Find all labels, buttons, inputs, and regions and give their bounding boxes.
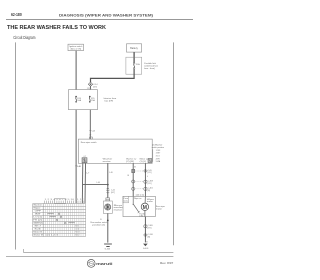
left column border bbox=[15, 42, 17, 249]
svg-text:Ignition switch: Ignition switch bbox=[69, 45, 83, 48]
wire pin6 to matrix bbox=[81, 163, 84, 203]
park switch contact bbox=[133, 196, 140, 213]
svg-text:1:OFF: 1:OFF bbox=[156, 150, 161, 152]
svg-text:17: 17 bbox=[89, 135, 91, 137]
connector circle right run upper bbox=[144, 180, 153, 185]
wire right fuse to combination switch box bbox=[89, 110, 91, 139]
svg-text:maruti: maruti bbox=[96, 261, 112, 266]
connector circle right run lower bbox=[144, 187, 153, 192]
connector circle on left run lower bbox=[132, 187, 135, 190]
svg-text:[GY]: [GY] bbox=[148, 183, 152, 185]
connector circle on left run upper bbox=[132, 180, 135, 183]
svg-text:Circuit Diagram: Circuit Diagram bbox=[13, 35, 36, 40]
svg-text:motor: motor bbox=[103, 160, 112, 163]
motor M bbox=[141, 196, 148, 216]
svg-text:[GY]: [GY] bbox=[111, 192, 115, 194]
svg-text:box - fuse): box - fuse) bbox=[144, 68, 155, 70]
svg-text:Earth: Earth bbox=[35, 228, 41, 231]
svg-text:DIAGNOSIS (WIPER AND WASHER SY: DIAGNOSIS (WIPER AND WASHER SYSTEM) bbox=[59, 13, 154, 17]
svg-text:Rear wiper switch: Rear wiper switch bbox=[81, 141, 98, 144]
svg-text:[GY]: [GY] bbox=[148, 172, 152, 174]
connector circle on ground drop bbox=[144, 225, 153, 230]
svg-text:Wiper sw: Wiper sw bbox=[134, 198, 142, 200]
wire label L-B bbox=[89, 130, 95, 132]
svg-text:Wiper: Wiper bbox=[33, 207, 41, 210]
rear wiper motor unit box bbox=[123, 196, 155, 216]
svg-text:5:WA: 5:WA bbox=[156, 160, 161, 163]
junction node bbox=[107, 184, 109, 186]
dashed pair line top bbox=[135, 170, 144, 172]
inline connector on washer motor wire bbox=[106, 188, 115, 194]
svg-text:B 4 2: B 4 2 bbox=[75, 235, 79, 237]
svg-text:M: M bbox=[143, 205, 147, 211]
matrix sub-table smudges bottom right bbox=[46, 226, 80, 237]
interior fuse box label bbox=[104, 97, 117, 103]
rear washer motor label bbox=[114, 205, 124, 212]
dashed pair line lower bbox=[135, 188, 144, 190]
matrix contact marks bbox=[47, 213, 74, 224]
svg-text:THE REAR WASHER FAILS TO WORK: THE REAR WASHER FAILS TO WORK bbox=[7, 25, 107, 31]
svg-text:Washer M: Washer M bbox=[33, 234, 43, 237]
connector C-1 (diamond) bbox=[88, 82, 98, 88]
svg-text:switch position: switch position bbox=[152, 146, 164, 149]
right column border bbox=[173, 42, 175, 245]
motor unit label top-right bbox=[147, 198, 155, 203]
svg-text:motor: motor bbox=[147, 200, 153, 203]
svg-text:LO (1): LO (1) bbox=[33, 217, 42, 219]
wire ignition to interior fuse box bbox=[75, 51, 77, 90]
fuse F3 (right) bbox=[89, 96, 95, 103]
svg-text:G-401: G-401 bbox=[143, 248, 149, 250]
wire label L-R on left drop bbox=[75, 166, 81, 168]
svg-text:(I) Washer: (I) Washer bbox=[152, 144, 162, 146]
node on ground wire bbox=[107, 220, 109, 222]
wire washer pin to junction bbox=[107, 163, 109, 198]
svg-text:WASH(3): WASH(3) bbox=[33, 222, 43, 225]
interior fuse box bbox=[69, 90, 98, 110]
battery box bbox=[127, 44, 142, 52]
svg-text:1 2 3 4 5 6 7 8 9 10 11 12: 1 2 3 4 5 6 7 8 9 10 11 12 bbox=[45, 199, 84, 201]
header rule bbox=[6, 19, 193, 21]
svg-text:Motor B: Motor B bbox=[33, 231, 43, 234]
svg-text:G-303: G-303 bbox=[105, 249, 111, 251]
connector housing bump on matrix top bbox=[54, 199, 65, 204]
footer upper rule with left tick bbox=[24, 249, 174, 253]
pin label INT bbox=[126, 158, 137, 164]
inline connector on left run bbox=[132, 169, 135, 172]
svg-text:(1) [L]: (1) [L] bbox=[140, 161, 147, 163]
motor unit label bottom-middle bbox=[139, 212, 144, 217]
washer pump motor symbol bbox=[105, 204, 111, 210]
rear washer motor box bbox=[103, 201, 112, 213]
ignition switch box bbox=[68, 44, 84, 51]
svg-text:box (I/P): box (I/P) bbox=[105, 101, 114, 103]
footer lower rule bbox=[6, 256, 173, 258]
svg-text:(ACC or ON): (ACC or ON) bbox=[71, 48, 82, 51]
svg-text:Rev. 8/97: Rev. 8/97 bbox=[160, 261, 174, 265]
fuse F2 (left) bbox=[75, 96, 81, 103]
svg-text:15 A: 15 A bbox=[136, 63, 141, 66]
matrix annotation text bbox=[90, 221, 107, 227]
fusible link FL bbox=[133, 57, 140, 69]
wire main fuse output to connector bbox=[91, 69, 135, 82]
washer motor plug bbox=[106, 198, 110, 201]
svg-text:[GY]: [GY] bbox=[93, 86, 97, 88]
svg-text:0.5 1.2 3: 0.5 1.2 3 bbox=[46, 235, 58, 237]
motor unit label top-left bbox=[123, 198, 129, 202]
wire connector to interior fuse box bbox=[89, 86, 91, 89]
switch contact matrix table bbox=[33, 204, 86, 237]
svg-text:Battery: Battery bbox=[130, 47, 138, 50]
underhood fuse box label bbox=[144, 63, 158, 70]
wire battery to main fuse bbox=[133, 52, 135, 57]
wire washer motor to ground bbox=[107, 213, 109, 242]
svg-text:4:HI: 4:HI bbox=[156, 158, 161, 160]
svg-text:R 1 8: R 1 8 bbox=[75, 232, 79, 234]
dashed pair line upper bbox=[135, 181, 144, 183]
svg-text:L 6 0: L 6 0 bbox=[75, 229, 79, 231]
wire motor to ground bbox=[144, 217, 146, 243]
wire left fuse to switch matrix bbox=[75, 110, 77, 204]
combination wiper/washer switch box bbox=[78, 139, 152, 163]
svg-text:HI (2): HI (2) bbox=[33, 220, 42, 222]
connector diamond on right run bbox=[144, 169, 152, 174]
wire pin7 to matrix bbox=[84, 163, 87, 203]
matrix row labels bbox=[33, 204, 43, 237]
branch wire junction to matrix bbox=[83, 184, 108, 186]
svg-text:62-180: 62-180 bbox=[11, 12, 22, 17]
pin label motor pin bbox=[140, 158, 149, 164]
ground G-2 (right) bbox=[143, 242, 149, 251]
pin cells at box bottom left bbox=[82, 156, 87, 163]
wires combination switch to motor unit: left run bbox=[132, 163, 134, 196]
wires combination switch to motor unit: right run bbox=[144, 163, 146, 196]
svg-text:motor: motor bbox=[156, 208, 162, 211]
maker logo bbox=[87, 260, 112, 268]
motor unit label cell bbox=[123, 196, 129, 203]
svg-text:(2) [B]: (2) [B] bbox=[126, 161, 134, 163]
svg-text:[GY]: [GY] bbox=[148, 228, 152, 230]
svg-text:B 2 1: B 2 1 bbox=[75, 226, 79, 228]
svg-text:Washer: Washer bbox=[33, 204, 42, 207]
connector diamond on ground drop bbox=[144, 233, 153, 238]
legend list right of switch box bbox=[152, 144, 164, 163]
svg-text:motor: motor bbox=[114, 209, 123, 212]
svg-text:position (I): position (I) bbox=[92, 224, 105, 227]
underhood fuse box (dashed) bbox=[126, 57, 142, 74]
pin cell at switch box bottom right bbox=[148, 158, 152, 162]
pin label washer pin bbox=[103, 158, 113, 164]
connector teeth row on matrix top bbox=[44, 201, 83, 204]
motor unit label right bbox=[156, 206, 165, 211]
ground G-1 (left) bbox=[104, 244, 112, 251]
pin box at switch box entry bbox=[89, 137, 92, 139]
svg-text:3:LO: 3:LO bbox=[156, 156, 161, 158]
